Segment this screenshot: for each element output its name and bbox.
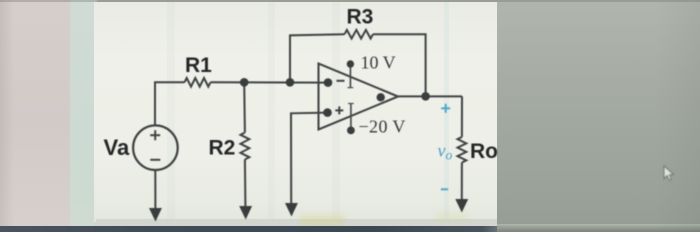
svg-text:R2: R2	[209, 137, 236, 160]
svg-text:vo: vo	[438, 141, 453, 163]
svg-text:10 V: 10 V	[361, 53, 396, 73]
svg-text:Va: Va	[104, 135, 130, 160]
svg-text:R3: R3	[347, 6, 374, 29]
svg-text:R1: R1	[185, 54, 212, 77]
svg-text:Ro: Ro	[470, 140, 498, 163]
svg-text:−20 V: −20 V	[359, 117, 406, 137]
